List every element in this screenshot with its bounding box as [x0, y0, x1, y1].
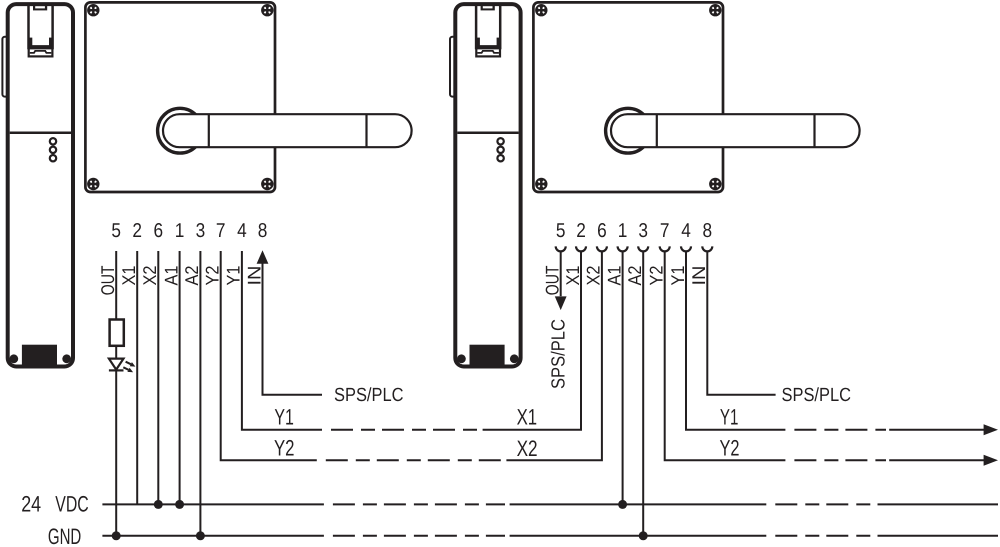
screw top-right (unit 2) [709, 4, 721, 16]
junction dot A1/24VDC (unit 1) [175, 500, 184, 509]
wire Y1 dashed span (unit 1 to unit 2) [331, 429, 478, 431]
foot dot right (unit 2) [510, 354, 519, 363]
LED emission arrow 2 (unit 1) [123, 367, 128, 370]
svg-text:Y2: Y2 [274, 435, 295, 460]
connector hook pin line 1 (unit 2) [556, 246, 566, 251]
indicator hole 3 (unit 2) [497, 155, 503, 161]
latch bolt step line (unit 1) [30, 51, 52, 53]
GND rail dashed segment 1 [333, 535, 505, 537]
lever end divider (unit 2) [813, 114, 815, 147]
wire IN pin8 to SPS/PLC stub (unit 2) [707, 251, 775, 394]
lever end divider (unit 1) [365, 114, 367, 147]
wire Y2 pin7 down and right (unit 1) [221, 251, 317, 460]
wire OUT pin5 (unit 2) [560, 251, 562, 296]
wire IN pin8 to SPS/PLC stub (unit 1) [263, 263, 323, 395]
screw bottom-right (unit 2) [709, 178, 721, 190]
svg-text:X2: X2 [583, 266, 604, 286]
latch inner bar left (unit 1) [29, 38, 32, 49]
GND rail dashed segment 2 [775, 535, 872, 537]
door terminal side tab (unit 1) [2, 37, 9, 97]
wire Y2 solid into unit2 X2 [506, 251, 602, 460]
latch bolt step line (unit 2) [477, 51, 499, 53]
housing divider (unit 1) [10, 132, 71, 135]
latch top cap (unit 1) [33, 3, 47, 10]
svg-text:3: 3 [638, 220, 648, 242]
svg-text:8: 8 [258, 220, 268, 242]
indicator hole 2 (unit 1) [50, 147, 56, 153]
svg-text:OUT: OUT [97, 266, 118, 296]
latch inner bar left (unit 2) [477, 38, 480, 49]
cable entry block (unit 2) [470, 345, 505, 365]
arrow Y2 output right end [984, 455, 998, 466]
svg-text:X1: X1 [517, 405, 538, 430]
svg-text:SPS/PLC: SPS/PLC [334, 385, 404, 406]
connector hook pin line 3 (unit 2) [597, 246, 607, 251]
latch inner bar right (unit 1) [49, 38, 52, 49]
wire Y1 pin4 down and right (unit 1) [242, 251, 322, 430]
escutcheon plate (unit 1) [85, 2, 275, 192]
LED emission arrow 1 (unit 1) [126, 362, 131, 365]
arrow into IN pin8 (unit 1) [257, 250, 269, 264]
screw bottom-left (unit 2) [535, 178, 547, 190]
connector hook pin line 7 (unit 2) [681, 246, 691, 251]
wire OUT pin5 upper segment (unit 1) [115, 251, 117, 320]
svg-text:A1: A1 [160, 266, 181, 286]
junction dot A1/24VDC (unit 2) [618, 500, 627, 509]
svg-text:Y1: Y1 [274, 405, 294, 430]
svg-text:7: 7 [660, 220, 670, 242]
latch top cap (unit 2) [481, 3, 495, 10]
screw top-left (unit 1) [87, 4, 99, 16]
connector hook pin line 4 (unit 2) [618, 246, 628, 251]
GND rail solid segment 3 [878, 535, 999, 537]
connector hook pin line 5 (unit 2) [638, 246, 648, 251]
connector hook pin line 8 (unit 2) [702, 246, 712, 251]
wire Y1 solid to arrow (unit 2) [889, 429, 984, 431]
svg-text:OUT: OUT [542, 266, 563, 296]
svg-text:7: 7 [216, 220, 226, 242]
wire A2 pin3 to GND rail (unit 1) [199, 251, 201, 536]
wire Y1 pin4 down and right (unit 2) [686, 251, 785, 429]
svg-text:X2: X2 [517, 436, 538, 461]
junction dot A2/GND (unit 2) [639, 531, 648, 540]
24 VDC rail solid segment 1 [102, 503, 324, 505]
wire A1 pin1 to 24VDC rail (unit 2) [622, 251, 624, 504]
latch cross line (unit 2) [479, 45, 498, 47]
svg-text:2: 2 [132, 220, 142, 242]
arrow down from OUT (unit 2) [555, 296, 567, 310]
indicator hole 1 (unit 2) [497, 138, 503, 144]
svg-text:8: 8 [703, 220, 713, 242]
svg-text:Y2: Y2 [202, 266, 223, 286]
svg-text:SPS/PLC: SPS/PLC [548, 319, 569, 389]
wire Y1 dashed span to output (unit 2) [794, 429, 886, 431]
svg-text:5: 5 [111, 220, 121, 242]
svg-text:5: 5 [556, 220, 566, 242]
svg-text:Y1: Y1 [223, 266, 244, 286]
GND rail solid segment 1 [102, 535, 324, 537]
latch bolt box (unit 2) [476, 48, 500, 56]
svg-text:1: 1 [618, 220, 628, 242]
24 VDC rail solid segment 2 [510, 503, 767, 505]
svg-text:SPS/PLC: SPS/PLC [782, 385, 852, 406]
foot dot left (unit 1) [9, 354, 18, 363]
indicator hole 1 (unit 1) [50, 138, 56, 144]
latch inner bar right (unit 2) [497, 38, 500, 49]
wire Y1 solid into unit2 X1 [483, 251, 581, 429]
LED cathode bar (unit 1) [109, 369, 124, 371]
svg-text:Y2: Y2 [646, 266, 667, 286]
latch guide right (unit 2) [499, 4, 502, 49]
wire resistor to LED (unit 1) [115, 346, 117, 359]
handle plate assembly (unit 2) [533, 2, 859, 192]
screw bottom-right (unit 1) [261, 178, 273, 190]
24 VDC rail solid segment 3 [878, 503, 999, 505]
door terminal housing (unit 1) [8, 4, 73, 366]
lever handle (unit 2) [611, 114, 860, 147]
cable entry block (unit 1) [22, 345, 57, 365]
svg-text:Y1: Y1 [720, 405, 739, 430]
foot dot right (unit 1) [62, 354, 71, 363]
svg-text:X1: X1 [562, 266, 583, 286]
latch guide left (unit 2) [475, 4, 478, 49]
svg-text:Y2: Y2 [720, 435, 740, 460]
wire Y2 solid to arrow (unit 2) [889, 459, 984, 461]
escutcheon plate (unit 2) [533, 2, 723, 192]
lever handle (unit 1) [163, 114, 412, 147]
wire X2 pin6 to 24VDC rail (unit 1) [157, 251, 159, 504]
wire OUT LED to GND rail (unit 1) [115, 370, 117, 535]
indicator hole 3 (unit 1) [50, 155, 56, 161]
latch cross line (unit 1) [31, 45, 50, 47]
wire Y2 pin7 down and right (unit 2) [665, 251, 786, 460]
svg-text:A1: A1 [603, 266, 624, 286]
connector hook pin line 6 (unit 2) [660, 246, 670, 251]
svg-text:VDC: VDC [55, 492, 88, 517]
resistor R (unit 1 OUT) [110, 320, 124, 346]
lever neck divider (unit 2) [656, 114, 658, 147]
wire X1 pin2 to 24VDC rail (unit 1) [136, 251, 138, 504]
junction dot A2/GND (unit 1) [196, 531, 205, 540]
screw top-left (unit 2) [535, 4, 547, 16]
wire A1 pin1 to 24VDC rail (unit 1) [179, 251, 181, 504]
latch guide right (unit 1) [51, 4, 54, 49]
handle rose (unit 2) [606, 108, 651, 153]
svg-text:X2: X2 [139, 266, 160, 286]
svg-text:Y1: Y1 [667, 266, 688, 286]
LED D (unit 1 OUT) [109, 359, 124, 370]
wire Y2 dashed span to output (unit 2) [794, 459, 886, 461]
door terminal device (unit 1) [2, 3, 73, 366]
24 VDC rail dashed segment 2 [775, 503, 872, 505]
svg-text:6: 6 [597, 220, 607, 242]
svg-text:IN: IN [243, 266, 264, 286]
latch guide left (unit 1) [27, 4, 30, 49]
latch bolt box (unit 1) [29, 48, 53, 56]
svg-text:4: 4 [237, 220, 247, 242]
svg-text:IN: IN [688, 266, 709, 286]
svg-text:6: 6 [154, 220, 164, 242]
housing divider (unit 2) [457, 132, 518, 135]
svg-text:X1: X1 [118, 266, 139, 286]
wire A2 pin3 to GND rail (unit 2) [642, 251, 644, 535]
svg-text:3: 3 [196, 220, 206, 242]
svg-text:4: 4 [681, 220, 691, 242]
door terminal housing (unit 2) [455, 4, 520, 366]
svg-text:1: 1 [175, 220, 185, 242]
arrow Y1 output right end [984, 424, 998, 435]
door terminal device (unit 2) [450, 3, 521, 366]
connector hook pin line 2 (unit 2) [576, 246, 586, 251]
wire Y2 dashed span (unit 1 to unit 2) [326, 459, 502, 461]
GND rail solid segment 2 [510, 535, 767, 537]
svg-text:2: 2 [576, 220, 586, 242]
handle plate assembly (unit 1) [85, 2, 411, 192]
handle rose (unit 1) [158, 108, 203, 153]
indicator hole 2 (unit 2) [497, 147, 503, 153]
svg-text:GND: GND [48, 524, 81, 547]
svg-text:A2: A2 [624, 266, 645, 286]
foot dot left (unit 2) [457, 354, 466, 363]
svg-text:A2: A2 [181, 266, 202, 286]
screw top-right (unit 1) [261, 4, 273, 16]
junction dot OUT/GND (unit 1) [112, 531, 121, 540]
junction dot X2/24VDC (unit 1) [154, 500, 163, 509]
24 VDC rail dashed segment 1 [333, 503, 505, 505]
door terminal side tab (unit 2) [450, 37, 457, 97]
screw bottom-left (unit 1) [87, 178, 99, 190]
lever neck divider (unit 1) [208, 114, 210, 147]
svg-text:24: 24 [21, 492, 41, 517]
